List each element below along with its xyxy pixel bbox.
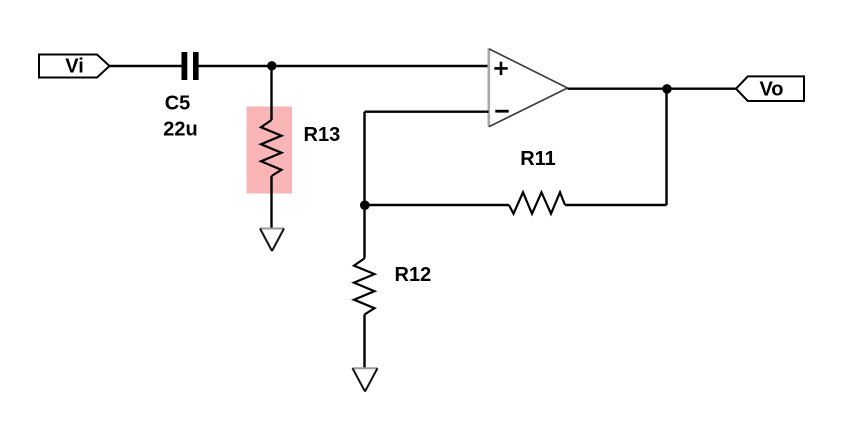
wire feedback node up to minus input xyxy=(363,112,365,205)
node junction feedback xyxy=(360,200,370,210)
node junction at output xyxy=(662,84,672,94)
output port Vo xyxy=(736,76,804,101)
svg-text:R13: R13 xyxy=(304,124,341,146)
wire feedback right segment xyxy=(565,204,667,206)
svg-text:Vo: Vo xyxy=(759,79,783,101)
resistor R12 xyxy=(354,258,431,314)
svg-text:22u: 22u xyxy=(163,119,197,141)
wire op-amp output to Vo xyxy=(568,87,737,89)
ground under R12 xyxy=(353,368,378,391)
op-amp U1 xyxy=(489,49,568,127)
wire R12 to ground xyxy=(363,315,365,370)
highlight box on R13 xyxy=(247,107,293,194)
svg-text:R11: R11 xyxy=(520,148,556,170)
resistor R11 xyxy=(509,148,565,214)
wire minus input xyxy=(365,110,489,112)
wire Vi to C5 xyxy=(110,65,182,67)
capacitor C5 22u xyxy=(163,52,198,141)
wire feedback node down to R12 xyxy=(363,205,365,258)
svg-text:R12: R12 xyxy=(395,264,432,286)
node junction at Vi/R13 xyxy=(267,61,276,70)
svg-text:C5: C5 xyxy=(165,93,191,115)
resistor R13 xyxy=(261,120,340,176)
wire C5 to op-amp + input xyxy=(199,65,489,67)
wire junction down to R13 xyxy=(270,66,272,120)
ground under R13 xyxy=(260,229,284,252)
input port Vi xyxy=(39,55,110,78)
wire feedback left segment xyxy=(365,204,510,206)
wire R13 to ground xyxy=(270,176,272,229)
svg-text:Vi: Vi xyxy=(65,56,84,78)
wire output down to feedback xyxy=(665,89,667,205)
